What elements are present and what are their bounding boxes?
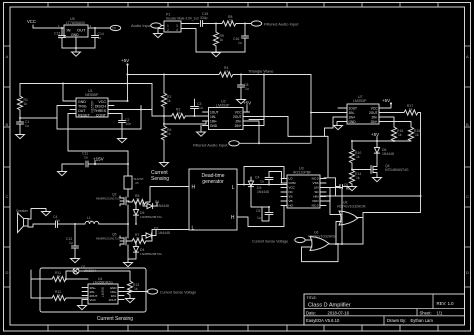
svg-text:2018-07-16: 2018-07-16 [328,310,350,315]
svg-text:NC:3: NC:3 [312,204,319,208]
svg-text:1IN-: 1IN- [210,115,216,119]
svg-text:CONT: CONT [96,114,107,118]
svg-text:1k: 1k [24,102,28,106]
svg-text:HIN: HIN [313,195,318,199]
svg-text:1OUT: 1OUT [349,106,358,110]
svg-text:2IN-: 2IN- [371,115,377,119]
svg-text:GND: GND [78,100,86,104]
svg-text:1k: 1k [136,197,140,201]
svg-text:THRES: THRES [94,109,107,113]
svg-text:VCC: VCC [90,298,97,302]
svg-text:Sheet:: Sheet: [420,310,432,315]
svg-text:+5V: +5V [371,132,379,137]
svg-text:HD74LV1G32ACM: HD74LV1G32ACM [337,205,366,209]
svg-text:REV: 1.0: REV: 1.0 [437,301,455,306]
svg-text:C: C [466,194,469,199]
svg-text:LM393P: LM393P [353,99,367,103]
svg-text:Eythan Lam: Eythan Lam [411,318,434,323]
svg-text:NTD4804NT4G: NTD4804NT4G [385,168,409,172]
svg-text:10n: 10n [126,122,132,126]
svg-text:4: 4 [176,28,178,32]
svg-text:1OUT: 1OUT [210,110,219,114]
svg-text:C5: C5 [256,209,260,213]
svg-text:+5V: +5V [382,98,390,103]
svg-text:2IN+: 2IN+ [371,120,378,124]
svg-text:Header-Male-2.54_1x2: Header-Male-2.54_1x2 [166,17,199,21]
svg-text:LIN: LIN [314,186,319,190]
svg-text:Current Sense Voltage: Current Sense Voltage [160,291,196,295]
svg-text:RESET: RESET [78,114,91,118]
svg-text:B: B [466,122,469,127]
svg-text:VS: VS [289,195,293,199]
svg-text:IR2110PBF: IR2110PBF [293,171,312,175]
svg-text:1IN+: 1IN+ [210,119,217,123]
svg-text:COM: COM [289,181,297,185]
svg-text:1u: 1u [245,87,249,91]
svg-text:Audio Input: Audio Input [131,23,152,28]
svg-text:H: H [231,215,235,221]
svg-text:1SMB5920BT3G: 1SMB5920BT3G [140,252,163,256]
svg-text:2OUT: 2OUT [233,115,242,119]
svg-text:1k: 1k [57,294,61,298]
svg-text:A: A [6,54,9,59]
svg-text:1u: 1u [58,36,62,40]
svg-text:VDD: VDD [312,199,319,203]
svg-text:1k: 1k [409,108,413,112]
svg-text:L: L [232,185,235,191]
svg-text:1N4448: 1N4448 [158,231,170,235]
svg-text:334p: 334p [200,16,208,20]
svg-text:1SMB5920BT3G: 1SMB5920BT3G [140,215,163,219]
svg-text:C: C [6,194,9,199]
svg-text:1u: 1u [199,106,203,110]
svg-text:1u: 1u [25,124,29,128]
svg-text:LM358DR2G: LM358DR2G [93,281,113,285]
svg-text:D: D [6,270,9,275]
svg-text:1u: 1u [346,187,350,191]
svg-text:1/1: 1/1 [437,310,443,315]
svg-text:NC:3: NC:3 [312,177,319,181]
svg-text:.05: .05 [135,181,140,185]
svg-text:VCC: VCC [235,110,242,114]
svg-text:Current Sensing: Current Sensing [97,316,133,322]
svg-text:2IN+: 2IN+ [235,124,242,128]
svg-text:generator: generator [202,179,224,185]
svg-text:EasyEDA V5.6.10: EasyEDA V5.6.10 [306,318,340,323]
svg-text:1u: 1u [56,219,60,223]
svg-text:LO: LO [289,177,294,181]
svg-text:VCC: VCC [27,19,36,24]
svg-text:1N4448: 1N4448 [382,152,394,156]
svg-text:1k: 1k [220,38,224,42]
svg-text:1u: 1u [69,241,73,245]
svg-text:LM358: LM358 [101,287,105,297]
svg-text:NE555P: NE555P [91,101,95,113]
svg-text:1k: 1k [229,19,233,23]
svg-text:1N4448: 1N4448 [257,190,269,194]
svg-text:1k: 1k [134,287,138,291]
svg-text:1m: 1m [88,220,93,224]
svg-text:1OUT: 1OUT [108,298,116,302]
svg-text:1k: 1k [136,236,140,240]
svg-text:1u: 1u [257,216,261,220]
svg-text:1k: 1k [167,99,171,103]
svg-text:OUT: OUT [78,109,86,113]
svg-text:1u: 1u [84,156,88,160]
svg-text:GND: GND [210,124,218,128]
svg-text:1u: 1u [238,41,242,45]
svg-text:GND: GND [71,33,79,37]
svg-text:Filtered Audio Input: Filtered Audio Input [264,22,299,27]
svg-text:TRIG: TRIG [78,105,87,109]
svg-text:LM393P: LM393P [216,104,230,108]
svg-text:7V: 7V [112,27,117,31]
svg-text:A: A [466,54,469,59]
svg-text:Triangle Wave: Triangle Wave [248,69,274,74]
svg-text:1IN-: 1IN- [349,111,355,115]
svg-text:OUT: OUT [77,28,86,33]
svg-text:IN: IN [67,28,71,33]
svg-text:+5V: +5V [121,58,129,63]
svg-text:Current Sense Voltage: Current Sense Voltage [252,240,288,244]
svg-text:Speaker: Speaker [16,209,29,213]
svg-text:1u: 1u [260,180,264,184]
svg-text:B: B [6,122,9,127]
svg-text:1IN+: 1IN+ [349,115,356,119]
svg-text:NE555P: NE555P [85,93,99,97]
svg-text:Sensing: Sensing [151,176,169,182]
svg-text:2: 2 [167,28,169,32]
svg-text:VCC: VCC [98,100,106,104]
svg-text:1k: 1k [398,133,402,137]
svg-text:D: D [466,270,469,275]
svg-text:2IN-: 2IN- [235,119,241,123]
svg-text:1k: 1k [356,155,360,159]
svg-text:GND: GND [349,120,357,124]
svg-text:Drawn By:: Drawn By: [387,318,406,323]
svg-text:1k: 1k [167,132,171,136]
svg-text:TITLE:: TITLE: [307,296,317,300]
svg-text:VCC: VCC [371,106,378,110]
svg-text:1k: 1k [356,176,360,180]
svg-text:MMBF0201NLT1G: MMBF0201NLT1G [96,237,121,241]
svg-text:DISCH: DISCH [95,105,107,109]
svg-text:2OUT: 2OUT [369,111,378,115]
svg-text:1k: 1k [415,133,419,137]
svg-text:H: H [192,185,196,191]
svg-text:L: L [192,226,195,232]
svg-text:Class D Amplifier: Class D Amplifier [308,303,351,309]
svg-text:Date:: Date: [306,310,316,315]
svg-text:1k: 1k [225,70,229,74]
svg-text:1N4448: 1N4448 [157,204,169,208]
svg-text:VSS: VSS [312,181,318,185]
svg-text:Filtered Audio Input: Filtered Audio Input [193,142,228,147]
svg-text:+5V: +5V [243,101,251,106]
svg-text:1k: 1k [57,275,61,279]
svg-text:MMBF0201NLT1G: MMBF0201NLT1G [96,197,121,201]
svg-text:VB: VB [289,199,293,203]
svg-text:C4: C4 [255,176,259,180]
svg-text:VCC: VCC [289,186,296,190]
svg-text:1k: 1k [177,111,181,115]
svg-text:HO: HO [289,204,294,208]
svg-text:LT7805ABV: LT7805ABV [66,21,86,25]
svg-text:1u: 1u [98,36,102,40]
